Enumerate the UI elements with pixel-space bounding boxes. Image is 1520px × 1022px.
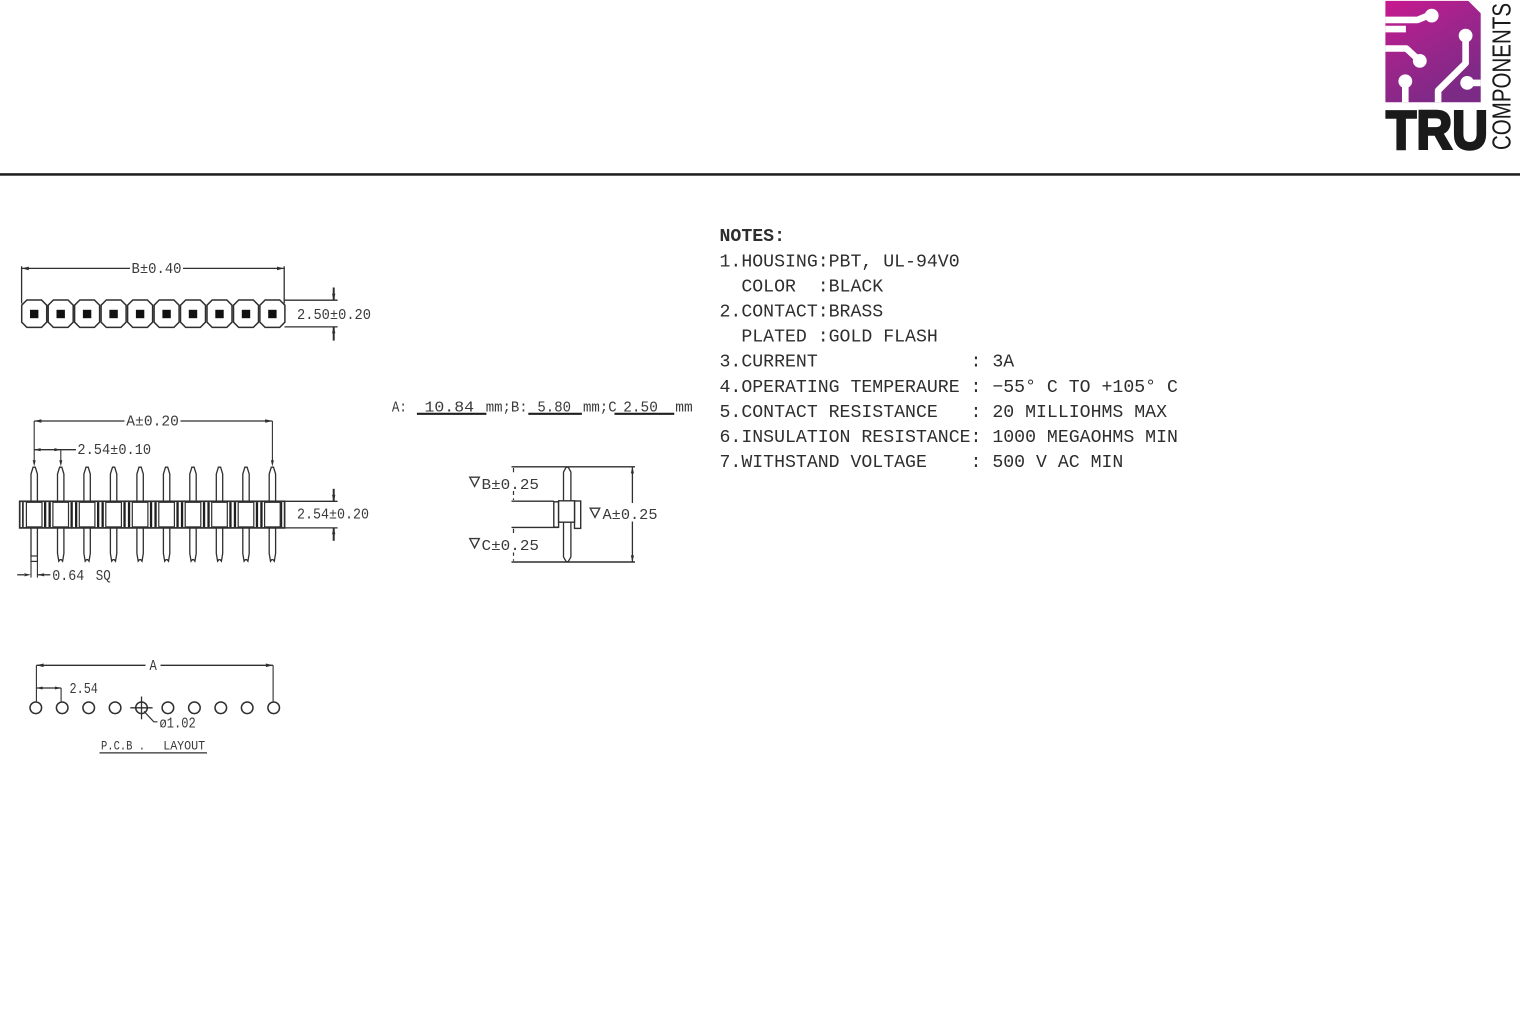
svg-text:ø1.02: ø1.02: [160, 716, 196, 732]
svg-text:mm: mm: [675, 401, 692, 417]
svg-text:B±0.25: B±0.25: [482, 478, 540, 494]
svg-text:2.54±0.20: 2.54±0.20: [297, 508, 369, 524]
svg-text:3.CURRENT : 3A: 3.CURRENT : 3A: [720, 353, 1015, 373]
svg-text:PLATED :GOLD FLASH: PLATED :GOLD FLASH: [720, 328, 938, 348]
PCB layout view: [30, 659, 280, 754]
svg-text:mm;B:: mm;B:: [486, 401, 528, 417]
svg-text:SQ: SQ: [96, 569, 111, 585]
dimension A±0.20: [33, 415, 274, 467]
dimension 0.64 SQ: [17, 569, 111, 585]
dimension 2.50±0.20 (pad height): [285, 288, 372, 341]
svg-text:mm;C: mm;C: [583, 401, 617, 417]
svg-text:B±0.40: B±0.40: [132, 262, 182, 278]
dimension table A/B/C values: [392, 401, 693, 417]
dimension A (pcb): [36, 664, 145, 666]
B level line: [512, 500, 554, 502]
pad center dots: [30, 310, 277, 318]
svg-text:A±0.25: A±0.25: [603, 508, 658, 524]
svg-text:COMPONENTS: COMPONENTS: [1487, 3, 1517, 150]
pin 1 bottom lead with 0.64 ref: [31, 528, 37, 556]
svg-text:LAYOUT: LAYOUT: [163, 739, 205, 754]
bottom limit line: [512, 561, 636, 563]
top pins: [31, 467, 37, 501]
bottom pins: [58, 528, 64, 561]
svg-text:P.C.B .: P.C.B .: [101, 739, 145, 754]
top limit line: [512, 466, 636, 468]
dimension 2.54±0.20 (body height): [285, 489, 369, 541]
overall dimension line A: [631, 467, 633, 503]
svg-text:6.INSULATION RESISTANCE: 1000: 6.INSULATION RESISTANCE: 1000 MEGAOHMS M…: [720, 428, 1178, 448]
notes text block: [720, 227, 1178, 473]
C level line: [512, 526, 559, 528]
svg-text:A±0.20: A±0.20: [126, 415, 179, 431]
svg-text:C±0.25: C±0.25: [482, 539, 540, 555]
dashed extension line: [513, 468, 515, 500]
leader to hole diameter: [144, 711, 157, 722]
svg-text:COLOR :BLACK: COLOR :BLACK: [720, 277, 884, 297]
label C±0.25: [468, 536, 540, 553]
crosshair on hole 5: [141, 697, 143, 720]
svg-text:NOTES:: NOTES:: [720, 227, 786, 247]
top view: pad row of 10 chamfered squares: [22, 300, 285, 327]
svg-text:TRU: TRU: [1386, 99, 1488, 161]
hole circles: [30, 702, 42, 714]
top horizontal rule: [0, 173, 1520, 176]
svg-text:A:: A:: [392, 401, 407, 417]
svg-text:7.WITHSTAND VOLTAGE : 500 V: 7.WITHSTAND VOLTAGE : 500 V AC MIN: [720, 453, 1124, 473]
svg-text:A: A: [150, 659, 158, 675]
svg-text:2.54: 2.54: [70, 682, 98, 698]
body cross-section: [554, 502, 559, 527]
svg-text:2.CONTACT:BRASS: 2.CONTACT:BRASS: [720, 303, 884, 323]
svg-text:0.64: 0.64: [52, 569, 84, 585]
dimension 2.54 (pcb pitch): [36, 687, 61, 689]
label A±0.25: [588, 504, 660, 522]
svg-text:4.OPERATING TEMPERAURE : −55°: 4.OPERATING TEMPERAURE : −55° C TO +105°…: [720, 378, 1178, 398]
pin cross: [564, 467, 571, 561]
TRU COMPONENTS logo: [1385, 1, 1516, 161]
svg-text:1.HOUSING:PBT, UL-94V0: 1.HOUSING:PBT, UL-94V0: [720, 252, 960, 272]
svg-text:2.54±0.10: 2.54±0.10: [77, 443, 151, 459]
body outline: [20, 501, 285, 528]
label B±0.25: [468, 474, 540, 491]
svg-text:5.CONTACT RESISTANCE : 20 MI: 5.CONTACT RESISTANCE : 20 MILLIOHMS MAX: [720, 403, 1168, 423]
body pads and stripes: [26, 502, 42, 527]
svg-text:2.50±0.20: 2.50±0.20: [297, 308, 371, 324]
single pin detail view: [468, 467, 660, 562]
dimension 2.54±0.10 (pitch): [34, 443, 151, 467]
side view: header body: [20, 467, 285, 577]
dimension B±0.40: [22, 262, 285, 304]
